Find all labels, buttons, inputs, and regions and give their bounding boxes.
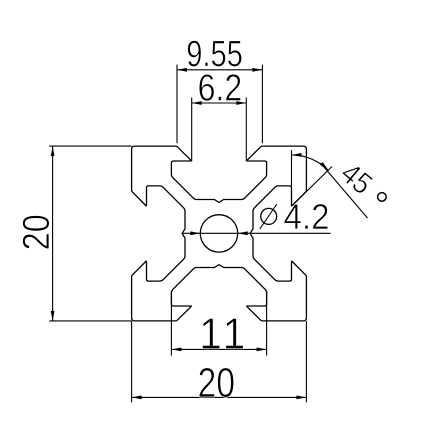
arrowhead bottom — [51, 311, 55, 321]
arrowhead left — [132, 396, 142, 400]
dimension line — [171, 348, 266, 350]
diameter symbol slash — [260, 204, 277, 229]
label 6.2 — [199, 74, 240, 101]
center bore hole — [200, 215, 237, 252]
extension line left — [191, 98, 193, 162]
label 20 (rotated) — [23, 216, 50, 249]
extension line left — [176, 65, 178, 144]
extension line bottom — [49, 320, 131, 322]
extension line left — [170, 291, 172, 356]
label 9.55 — [188, 41, 242, 67]
label 20 — [199, 368, 233, 398]
arrowhead right — [238, 231, 248, 235]
dimension line — [192, 102, 247, 104]
diameter symbol circle — [261, 208, 277, 224]
arrowhead top — [292, 153, 302, 157]
extension line right — [266, 291, 268, 356]
leader line under label — [321, 163, 368, 218]
dimension line through hole — [182, 232, 331, 234]
arrowhead left — [190, 231, 200, 235]
dimension 20 (width, bottom) — [132, 321, 307, 403]
extension line left — [131, 321, 133, 403]
extension line top — [49, 145, 131, 147]
dimension 11 (slot width) — [171, 291, 266, 356]
extension line right — [261, 65, 263, 144]
extrusion profile outline (20x20 V-slot cross-section) — [132, 146, 307, 321]
dimension line — [177, 69, 262, 71]
arrowhead right — [252, 68, 262, 72]
dimension 6.2 — [192, 74, 247, 161]
dimension arc — [292, 155, 329, 171]
arrowhead left — [192, 101, 202, 105]
dimension hole diameter 4.2 — [182, 204, 331, 235]
extension line vertical — [291, 150, 293, 186]
arrowhead right — [296, 396, 306, 400]
arrowhead left — [171, 348, 181, 352]
chamfer extension line 45deg — [294, 167, 332, 204]
label 4.2 — [284, 204, 328, 229]
arrowhead right — [236, 101, 246, 105]
arrowhead top — [51, 146, 55, 156]
extension line right — [245, 98, 247, 162]
degree symbol — [378, 193, 387, 202]
arrowhead lower — [320, 162, 329, 170]
extension line right — [305, 321, 307, 403]
dimension 20 (height, left) — [23, 146, 132, 321]
dimension line — [132, 396, 307, 398]
label 45 — [339, 161, 374, 195]
dimension 9.55 — [177, 41, 262, 144]
arrowhead left — [177, 68, 187, 72]
label 11 — [202, 318, 243, 348]
arrowhead right — [257, 348, 267, 352]
dimension line — [52, 146, 54, 321]
dimension 45 degrees — [292, 150, 387, 218]
